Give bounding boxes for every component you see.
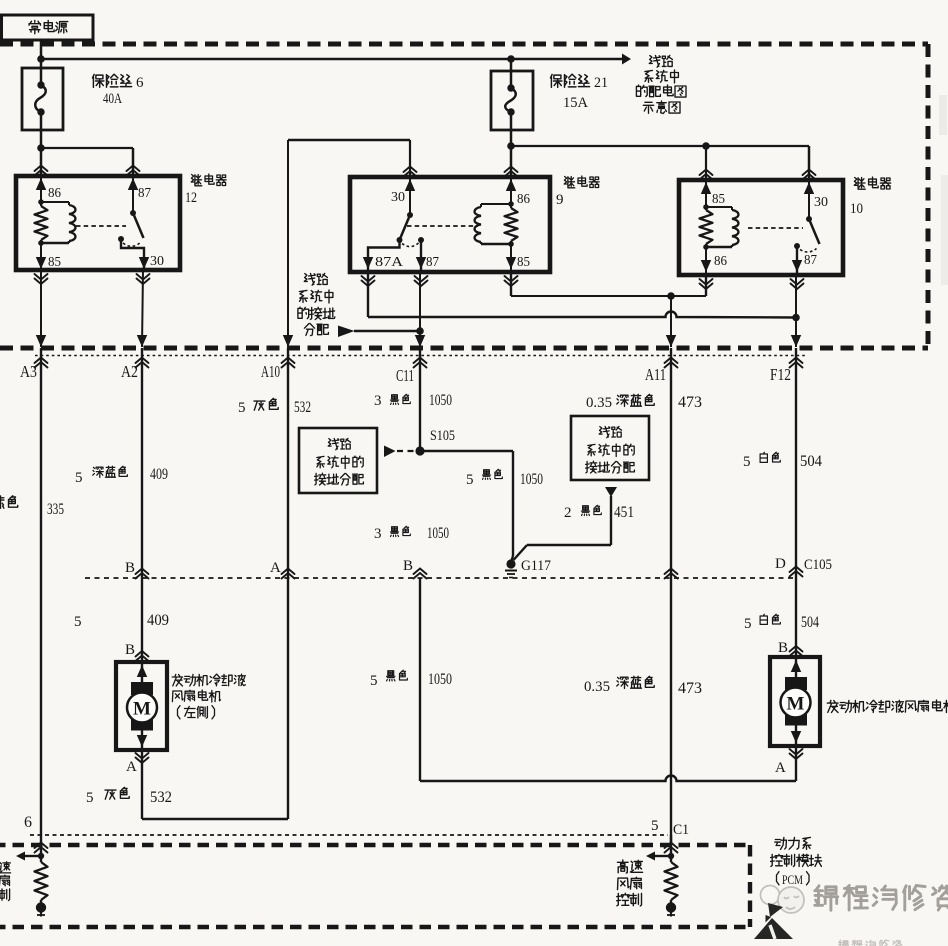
svg-text:87A: 87A — [375, 255, 404, 270]
svg-text:1050: 1050 — [429, 392, 452, 409]
svg-text:A: A — [126, 759, 137, 775]
svg-text:F12: F12 — [770, 365, 791, 384]
svg-text:86: 86 — [48, 186, 61, 201]
svg-text:A3: A3 — [20, 362, 37, 381]
svg-text:409: 409 — [150, 466, 168, 483]
svg-text:30: 30 — [814, 195, 828, 210]
svg-text:85: 85 — [712, 192, 725, 207]
svg-text:1050: 1050 — [427, 525, 449, 542]
svg-text:A10: A10 — [261, 362, 280, 381]
svg-text:87: 87 — [804, 253, 817, 268]
svg-text:A: A — [270, 560, 281, 576]
svg-text:85: 85 — [48, 255, 61, 270]
svg-text:B: B — [125, 642, 135, 658]
svg-text:M: M — [133, 699, 151, 720]
svg-text:532: 532 — [294, 399, 311, 416]
svg-text:30: 30 — [150, 254, 164, 269]
svg-text:504: 504 — [801, 614, 819, 631]
svg-text:1050: 1050 — [428, 671, 452, 688]
svg-text:2: 2 — [564, 505, 572, 521]
svg-text:21: 21 — [594, 75, 608, 91]
svg-text:5: 5 — [86, 790, 94, 806]
svg-text:PCM: PCM — [782, 872, 803, 887]
svg-text:S105: S105 — [430, 428, 455, 444]
svg-text:87: 87 — [138, 186, 151, 201]
svg-text:B: B — [125, 560, 135, 576]
svg-text:A2: A2 — [121, 362, 138, 381]
svg-text:A: A — [775, 760, 786, 776]
svg-text:12: 12 — [185, 190, 197, 206]
svg-text:3: 3 — [374, 393, 382, 409]
svg-text:M: M — [787, 694, 805, 715]
svg-text:40A: 40A — [103, 91, 122, 107]
svg-text:3: 3 — [374, 526, 382, 542]
svg-text:5: 5 — [466, 472, 474, 488]
svg-text:5: 5 — [651, 818, 659, 834]
svg-text:0.35: 0.35 — [584, 679, 610, 695]
svg-text:5: 5 — [238, 400, 246, 416]
svg-text:504: 504 — [800, 453, 822, 470]
svg-text:D: D — [775, 556, 786, 572]
svg-text:86: 86 — [714, 254, 727, 269]
svg-text:C1: C1 — [673, 822, 689, 838]
svg-text:6: 6 — [136, 75, 144, 91]
svg-text:335: 335 — [47, 501, 64, 518]
svg-text:5: 5 — [74, 614, 82, 630]
svg-text:C11: C11 — [396, 366, 414, 385]
svg-text:30: 30 — [391, 190, 405, 205]
svg-text:B: B — [403, 558, 413, 574]
svg-text:6: 6 — [24, 814, 32, 831]
svg-text:5: 5 — [75, 470, 83, 486]
svg-text:409: 409 — [147, 612, 169, 629]
svg-text:A11: A11 — [645, 365, 666, 384]
svg-text:10: 10 — [850, 201, 863, 217]
svg-text:9: 9 — [556, 192, 564, 208]
svg-text:B: B — [778, 640, 788, 656]
svg-text:1050: 1050 — [520, 471, 543, 488]
svg-text:451: 451 — [614, 504, 634, 521]
svg-text:87: 87 — [426, 255, 439, 270]
svg-text:85: 85 — [517, 255, 530, 270]
svg-text:5: 5 — [370, 673, 378, 689]
svg-text:15A: 15A — [563, 95, 588, 111]
svg-text:C105: C105 — [804, 557, 832, 573]
svg-text:5: 5 — [744, 616, 752, 632]
svg-text:G117: G117 — [521, 558, 551, 574]
svg-text:532: 532 — [150, 789, 172, 806]
svg-text:473: 473 — [678, 680, 702, 697]
svg-text:5: 5 — [743, 454, 751, 470]
svg-text:473: 473 — [678, 394, 702, 411]
svg-text:0.35: 0.35 — [586, 395, 612, 411]
svg-text:86: 86 — [517, 192, 530, 207]
